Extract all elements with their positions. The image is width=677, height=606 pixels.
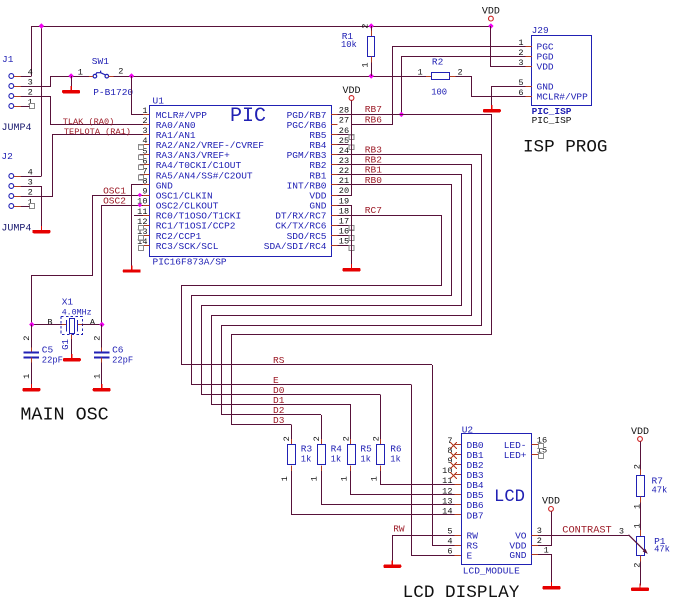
svg-text:R3: R3 [301, 443, 313, 454]
wire VDD to J2 pin 4 [41, 26, 43, 176]
svg-text:1: 1 [369, 476, 379, 481]
svg-text:2: 2 [142, 116, 147, 126]
svg-text:19: 19 [339, 196, 349, 206]
potentiometer P1 47k [619, 523, 670, 585]
wire R3 to LCD DB7 [292, 471, 455, 514]
wire net RB2 from PIC to D1 [212, 165, 472, 405]
svg-text:1: 1 [92, 374, 102, 379]
wire LCD GND pin 1 to ground [538, 555, 552, 585]
wire net RB3 from PIC to D2 [222, 155, 482, 415]
capacitor C5 22pF [22, 325, 63, 387]
svg-text:VDD: VDD [482, 6, 500, 17]
svg-text:47k: 47k [654, 545, 670, 555]
svg-text:2: 2 [312, 436, 322, 441]
svg-text:2: 2 [633, 563, 643, 568]
svg-text:RC7: RC7 [365, 205, 382, 216]
wire J29 GND pin5 to ground [492, 87, 526, 108]
svg-text:B: B [47, 318, 52, 328]
wire J1 pin 3 to SW1 pin 1 with ground tap [21, 77, 89, 87]
junction VDD rail right [488, 23, 493, 28]
svg-text:22pF: 22pF [112, 356, 133, 366]
IC U2 LCD_MODULE [442, 424, 549, 576]
svg-text:C6: C6 [112, 345, 124, 356]
svg-text:1: 1 [22, 374, 32, 379]
svg-text:CONTRAST: CONTRAST [562, 525, 611, 537]
wire VO contrast net [538, 535, 629, 537]
power VDD at LCD [549, 507, 554, 512]
resistor R1 10k [341, 24, 375, 76]
svg-text:RC3/SCK/SCL: RC3/SCK/SCL [156, 241, 219, 252]
svg-text:14: 14 [442, 507, 452, 517]
svg-text:4: 4 [28, 167, 33, 177]
svg-text:7: 7 [447, 436, 452, 446]
svg-text:PIC: PIC [230, 105, 266, 128]
wire VDD top rail [32, 27, 491, 77]
wire PGD down to RB7 [402, 57, 526, 115]
junction VDD rail at R1 [369, 23, 374, 28]
wire net RB1 from PIC to D0 [202, 175, 462, 395]
connector J1 [2, 54, 34, 109]
connector J29 PIC_ISP [518, 25, 591, 106]
svg-text:2: 2 [360, 24, 370, 29]
svg-text:VDD: VDD [537, 62, 554, 73]
svg-text:MAIN OSC: MAIN OSC [20, 405, 108, 426]
ground right of PIC [351, 264, 353, 268]
power VDD symbol top right [489, 16, 494, 21]
wire net RC7 from PIC to RS [182, 216, 442, 365]
resistor R3 1k [280, 425, 313, 481]
junction R1 bottom MCLR [369, 73, 374, 78]
wire J1 pin 2 TLAK net down [21, 97, 143, 125]
svg-text:100: 100 [431, 88, 447, 98]
svg-text:VDD: VDD [631, 427, 649, 438]
wire RS vertical to LCD [433, 365, 455, 546]
svg-text:LCD_MODULE: LCD_MODULE [463, 566, 520, 577]
svg-text:P-B1720: P-B1720 [93, 87, 133, 98]
svg-text:R2: R2 [432, 56, 444, 67]
power VDD at PIC pin 20 [349, 96, 354, 101]
wire net RB7 from PIC to D3 [232, 115, 492, 425]
svg-text:TEPLOTA (RA1): TEPLOTA (RA1) [64, 127, 131, 137]
wire crystal B to OSC1 [32, 324, 62, 326]
unconnected pin squares U1 left [134, 145, 143, 251]
wire VDD to pin 20 [338, 100, 352, 195]
svg-text:2: 2 [118, 67, 123, 77]
svg-text:18: 18 [339, 206, 349, 216]
svg-text:2: 2 [282, 436, 292, 441]
svg-text:2: 2 [371, 436, 381, 441]
svg-text:2: 2 [28, 87, 33, 97]
svg-text:1k: 1k [331, 455, 342, 465]
svg-text:3: 3 [619, 526, 624, 536]
junction top-left VDD rail [39, 23, 44, 28]
svg-text:SW1: SW1 [92, 56, 109, 67]
wire MCLR row SW1 to R2 [113, 76, 426, 78]
no-connect crosses DB0-DB3 [450, 442, 457, 449]
svg-text:X1: X1 [62, 297, 74, 308]
junction PGD-RB7 [399, 112, 404, 117]
crystal X1 4.0MHz [47, 297, 95, 357]
wire RW to ground [393, 536, 455, 563]
svg-text:2: 2 [633, 464, 643, 469]
wire J1 pin 1 stub [21, 106, 30, 108]
svg-text:1: 1 [142, 106, 147, 116]
capacitor C6 22pF [92, 325, 133, 387]
resistor R4 1k [310, 415, 343, 481]
svg-text:VDD: VDD [342, 86, 360, 97]
svg-text:47k: 47k [652, 485, 668, 495]
svg-text:1: 1 [418, 67, 423, 77]
wire PIC GND pin19 to ground [338, 206, 352, 267]
resistor R2 100 [418, 56, 463, 97]
svg-text:LED+: LED+ [504, 450, 527, 461]
svg-text:RW: RW [393, 523, 405, 534]
svg-text:1k: 1k [301, 455, 312, 465]
wire ground stem at SW1 [71, 76, 73, 88]
svg-text:1: 1 [78, 67, 83, 77]
svg-text:3: 3 [537, 526, 542, 536]
junction crystal B [29, 322, 34, 327]
svg-text:R4: R4 [331, 443, 343, 454]
svg-text:1: 1 [360, 62, 370, 67]
ground under LCD [551, 582, 553, 586]
svg-text:9: 9 [142, 187, 147, 197]
svg-text:10k: 10k [341, 40, 357, 50]
wire OSC1 net [32, 196, 144, 325]
svg-text:VDD: VDD [542, 497, 560, 508]
wire J2 pin 1 stub [21, 206, 30, 208]
svg-text:LCD: LCD [494, 488, 525, 507]
junction OSC2 pin [138, 203, 142, 207]
svg-text:1: 1 [633, 523, 643, 528]
svg-text:4: 4 [28, 67, 33, 77]
svg-text:1: 1 [310, 476, 320, 481]
svg-text:1: 1 [633, 504, 643, 509]
ground G1 under crystal [71, 354, 73, 358]
svg-text:A: A [90, 318, 96, 328]
svg-text:MCLR#/VPP: MCLR#/VPP [537, 92, 589, 103]
ground at J29 [491, 105, 493, 109]
wire VDD to LCD pin 2 [538, 511, 552, 545]
wire R2 to J29 MCLR pin 6 [455, 77, 525, 97]
svg-text:17: 17 [339, 216, 349, 226]
svg-text:J1: J1 [2, 54, 14, 65]
svg-text:22pF: 22pF [42, 356, 63, 366]
svg-text:RB6: RB6 [365, 114, 382, 125]
svg-text:GND: GND [509, 550, 526, 561]
junction SW1 pin2 MCLR [129, 73, 134, 78]
svg-text:C5: C5 [42, 345, 54, 356]
ground under J2 [40, 226, 42, 230]
wire R4 to LCD DB6 [322, 471, 455, 504]
wire MCLR down to PIC pin 1 [132, 76, 144, 115]
wire J29 VDD pin3 [491, 26, 526, 67]
wire E vertical to LCD [412, 385, 455, 556]
svg-text:3: 3 [142, 126, 147, 136]
resistor R6 1k [369, 395, 402, 481]
connector J2 [1, 151, 34, 209]
svg-text:13: 13 [442, 496, 452, 506]
svg-text:U1: U1 [153, 95, 165, 106]
svg-text:2: 2 [92, 336, 102, 341]
svg-text:20: 20 [339, 186, 349, 196]
junction SW1 ground tap [68, 73, 73, 78]
svg-text:DB7: DB7 [467, 510, 484, 521]
svg-text:6: 6 [447, 547, 452, 557]
svg-text:2: 2 [28, 187, 33, 197]
svg-text:6: 6 [518, 88, 523, 98]
ground under C6 [101, 384, 103, 388]
svg-text:R6: R6 [390, 443, 402, 454]
svg-text:3: 3 [28, 177, 33, 187]
svg-text:1k: 1k [390, 455, 401, 465]
svg-text:ISP PROG: ISP PROG [523, 138, 607, 158]
IC U1 PIC16F873A/SP [137, 95, 349, 267]
ground under RW [391, 561, 393, 565]
wire OSC2 net [102, 206, 144, 325]
svg-text:1k: 1k [360, 455, 371, 465]
wire J2 pin 2 TEPLOTA net [21, 135, 143, 197]
switch SW1 [78, 56, 134, 98]
ground under C5 [30, 384, 32, 388]
svg-text:3: 3 [28, 77, 33, 87]
wire J2 pin 4 to VDD vertical [21, 176, 42, 178]
svg-text:OSC2: OSC2 [103, 196, 126, 207]
junction crystal A [99, 322, 104, 327]
svg-text:1: 1 [340, 476, 350, 481]
svg-text:J29: J29 [532, 25, 549, 36]
ground under PIC [131, 265, 133, 269]
svg-text:2: 2 [537, 536, 542, 546]
svg-text:27: 27 [339, 116, 349, 126]
wire PIC GND pin8 to ground [132, 185, 144, 268]
svg-text:TLAK (RA0): TLAK (RA0) [63, 117, 115, 127]
svg-text:PIC_ISP: PIC_ISP [532, 115, 572, 126]
unconnected pin squares U1 right [338, 135, 354, 251]
svg-text:J2: J2 [1, 151, 13, 162]
resistor R5 1k [340, 405, 373, 481]
ground under P1 [639, 584, 641, 588]
svg-text:PIC16F873A/SP: PIC16F873A/SP [153, 257, 227, 268]
power VDD at R7 [638, 437, 643, 442]
svg-text:R5: R5 [360, 443, 372, 454]
wire PGC to RB6 [352, 47, 526, 125]
svg-text:4: 4 [447, 537, 452, 547]
svg-text:G1: G1 [61, 339, 71, 350]
wire J1 pin 4 to VDD vertical [21, 76, 32, 78]
wire net RB0 from PIC to E [192, 185, 452, 385]
svg-text:2: 2 [22, 336, 32, 341]
svg-text:LCD DISPLAY: LCD DISPLAY [403, 583, 520, 603]
svg-text:SDA/SDI/RC4: SDA/SDI/RC4 [264, 241, 327, 252]
wire crystal A to OSC2 [82, 324, 103, 326]
wire R5 to LCD DB5 [351, 471, 455, 494]
svg-text:12: 12 [442, 486, 452, 496]
svg-text:1: 1 [280, 476, 290, 481]
junction OSC1 pin [138, 193, 142, 197]
svg-text:E: E [467, 550, 473, 561]
ground under SW1 [70, 86, 72, 90]
svg-text:JUMP4: JUMP4 [1, 223, 31, 234]
wire R6 to LCD DB4 [381, 471, 455, 484]
svg-text:2: 2 [342, 436, 352, 441]
svg-text:JUMP4: JUMP4 [2, 123, 32, 134]
wire J2 pin 3 to ground [21, 187, 42, 229]
unconnected LED pins squares [539, 444, 544, 449]
resistor R7 47k [633, 442, 668, 531]
svg-text:2: 2 [458, 67, 463, 77]
